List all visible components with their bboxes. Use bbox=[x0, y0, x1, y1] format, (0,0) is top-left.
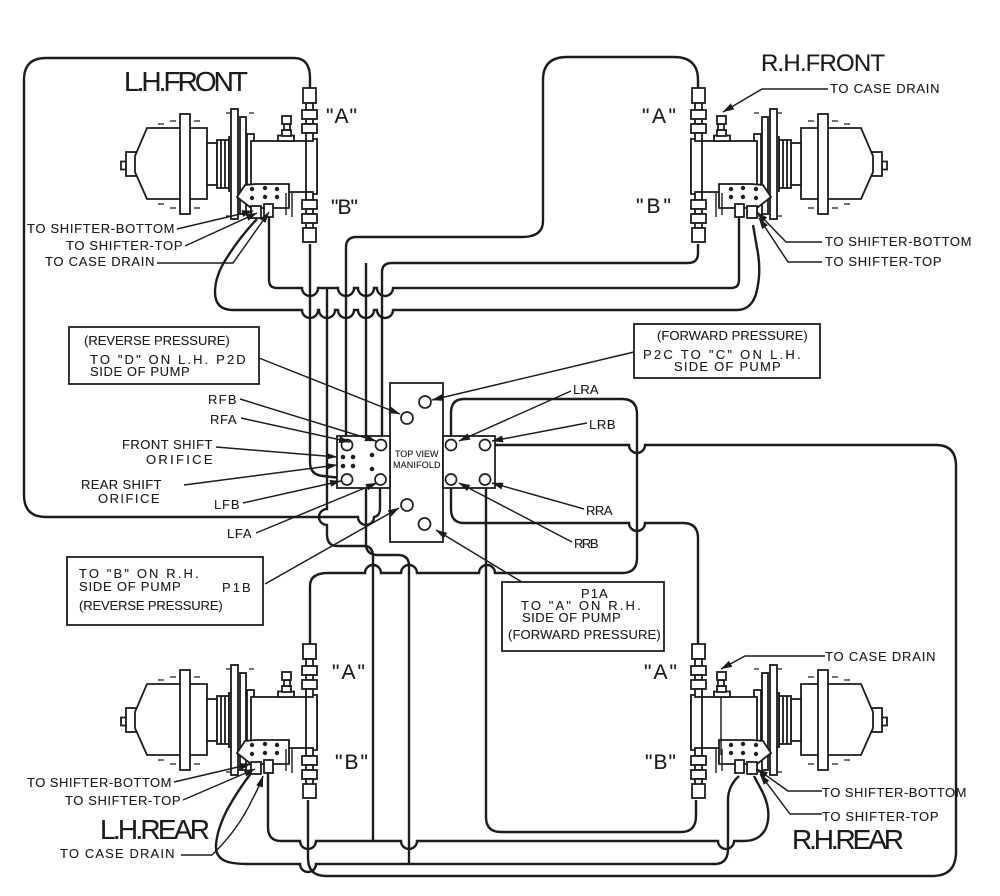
svg-text:TO CASE DRAIN: TO CASE DRAIN bbox=[60, 846, 175, 861]
svg-text:SIDE OF PUMP: SIDE OF PUMP bbox=[522, 610, 621, 625]
svg-text:(REVERSE PRESSURE): (REVERSE PRESSURE) bbox=[84, 333, 230, 348]
svg-text:(REVERSE PRESSURE): (REVERSE PRESSURE) bbox=[79, 598, 223, 613]
svg-text:RRB: RRB bbox=[574, 536, 599, 551]
svg-text:"A": "A" bbox=[326, 105, 357, 128]
svg-text:L.H.REAR: L.H.REAR bbox=[100, 814, 211, 845]
svg-text:P1B: P1B bbox=[222, 580, 251, 595]
svg-text:TO SHIFTER-BOTTOM: TO SHIFTER-BOTTOM bbox=[27, 775, 172, 790]
svg-text:FRONT SHIFT: FRONT SHIFT bbox=[122, 437, 213, 452]
svg-text:REAR SHIFT: REAR SHIFT bbox=[81, 477, 162, 492]
svg-text:ORIFICE: ORIFICE bbox=[146, 452, 213, 467]
svg-text:TO SHIFTER-BOTTOM: TO SHIFTER-BOTTOM bbox=[822, 785, 967, 800]
svg-text:SIDE OF PUMP: SIDE OF PUMP bbox=[79, 579, 181, 594]
svg-text:TO SHIFTER-TOP: TO SHIFTER-TOP bbox=[66, 238, 183, 253]
svg-text:LFB: LFB bbox=[214, 497, 240, 512]
svg-text:ORIFICE: ORIFICE bbox=[98, 491, 160, 506]
svg-text:TO SHIFTER-TOP: TO SHIFTER-TOP bbox=[825, 254, 942, 269]
svg-text:TO SHIFTER-TOP: TO SHIFTER-TOP bbox=[65, 793, 181, 808]
svg-text:RFA: RFA bbox=[210, 412, 237, 427]
svg-text:TOP VIEW: TOP VIEW bbox=[395, 449, 439, 459]
svg-text:TO CASE DRAIN: TO CASE DRAIN bbox=[825, 649, 936, 664]
svg-text:RFB: RFB bbox=[208, 392, 237, 407]
svg-text:"A": "A" bbox=[332, 661, 365, 684]
svg-text:MANIFOLD: MANIFOLD bbox=[393, 460, 441, 470]
svg-text:"B": "B" bbox=[335, 751, 368, 774]
svg-text:L.H.FRONT: L.H.FRONT bbox=[124, 66, 249, 97]
svg-text:"B": "B" bbox=[645, 751, 676, 774]
svg-text:SIDE OF PUMP: SIDE OF PUMP bbox=[674, 359, 781, 374]
svg-text:(FORWARD PRESSURE): (FORWARD PRESSURE) bbox=[657, 328, 808, 343]
svg-text:R.H.FRONT: R.H.FRONT bbox=[761, 50, 886, 77]
svg-text:"B": "B" bbox=[636, 195, 671, 218]
svg-text:TO SHIFTER-BOTTOM: TO SHIFTER-BOTTOM bbox=[825, 234, 972, 249]
svg-text:SIDE OF PUMP: SIDE OF PUMP bbox=[90, 364, 190, 379]
svg-text:R.H.REAR: R.H.REAR bbox=[792, 824, 905, 855]
svg-text:"A": "A" bbox=[644, 661, 677, 684]
svg-text:"A": "A" bbox=[642, 105, 676, 128]
svg-text:TO CASE DRAIN: TO CASE DRAIN bbox=[830, 81, 940, 96]
svg-text:LFA: LFA bbox=[227, 526, 252, 541]
svg-text:TO SHIFTER-TOP: TO SHIFTER-TOP bbox=[822, 809, 939, 824]
svg-text:TO SHIFTER-BOTTOM: TO SHIFTER-BOTTOM bbox=[27, 221, 175, 236]
svg-text:(FORWARD PRESSURE): (FORWARD PRESSURE) bbox=[508, 627, 661, 642]
svg-text:"B": "B" bbox=[331, 196, 358, 219]
svg-text:LRB: LRB bbox=[589, 417, 616, 432]
svg-text:TO CASE DRAIN: TO CASE DRAIN bbox=[45, 254, 155, 269]
svg-text:RRA: RRA bbox=[586, 503, 613, 518]
svg-text:LRA: LRA bbox=[573, 382, 599, 397]
